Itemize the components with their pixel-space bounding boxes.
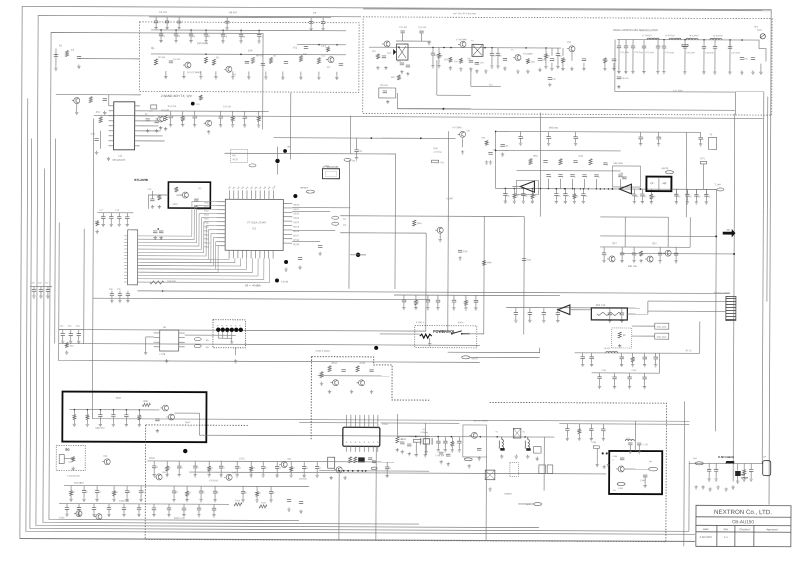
wire [123, 504, 125, 508]
wire U2 pin L3 [216, 209, 225, 211]
wire junction [338, 470, 340, 472]
wire junction [606, 452, 608, 454]
filter F1 inner [325, 171, 336, 176]
ground [77, 340, 80, 344]
ground [172, 498, 175, 502]
wire [226, 17, 228, 21]
ground [633, 200, 636, 204]
wire [650, 189, 652, 194]
wire [444, 443, 446, 448]
capacitor C11 [169, 61, 173, 63]
ground [257, 39, 260, 43]
ground [550, 67, 553, 71]
resistor R48 [86, 415, 89, 420]
ground [302, 474, 305, 478]
ground [269, 498, 272, 502]
transistor Q7 [458, 131, 466, 137]
wire junction [715, 235, 717, 237]
capacitor C96 [573, 137, 577, 139]
wire U2 pin T1 [228, 190, 230, 199]
wire [640, 132, 642, 137]
wire rail y299 [93, 298, 430, 299]
capacitor C61 [154, 121, 158, 123]
resistor R37 [559, 159, 562, 165]
wire junction [398, 47, 400, 49]
ground [590, 437, 593, 441]
svg-text:L2 0.65UH: L2 0.65UH [642, 34, 652, 37]
wire [198, 504, 200, 508]
resistor R23 [437, 53, 440, 58]
wire long rail y345 [59, 344, 480, 346]
capacitor C91 [543, 161, 547, 163]
resistor R4 [299, 56, 302, 62]
transistor Q17 [160, 405, 168, 411]
wire inside bold box [69, 409, 159, 411]
resistor R52 [328, 366, 331, 372]
capacitor C134 [61, 334, 65, 336]
wire [462, 138, 464, 147]
capacitor C45 [642, 46, 646, 48]
ground [414, 306, 417, 310]
ground [110, 299, 113, 303]
ground [384, 66, 387, 70]
svg-text:C47: C47 [527, 259, 532, 262]
ground [490, 64, 493, 68]
IF transformer T1 [396, 44, 408, 60]
capacitor C7 [257, 34, 261, 36]
wire [737, 463, 739, 470]
wire drop x487 [485, 456, 487, 540]
wire junction [222, 29, 224, 31]
ground [716, 485, 719, 489]
wire junction [139, 409, 141, 411]
wire U2 pin L6 [216, 221, 225, 223]
ground [701, 485, 704, 489]
ground [736, 479, 739, 483]
ground [158, 205, 161, 209]
resistor R39 [485, 140, 488, 145]
inductor L4 [710, 38, 722, 40]
wire 22u stub [471, 85, 501, 87]
wire junction [733, 253, 735, 255]
capacitor C159 [172, 491, 176, 493]
wire [475, 302, 477, 306]
capacitor C43 [624, 46, 628, 48]
wire [427, 302, 429, 306]
wire top edge band [363, 9, 771, 11]
wire [458, 443, 460, 448]
svg-text:C121: C121 [239, 457, 245, 460]
wire junction [596, 188, 597, 189]
osc loop [463, 425, 487, 457]
transistor Q4 [72, 98, 80, 104]
wire [504, 188, 506, 193]
wire [655, 359, 657, 363]
transistor Q14 [607, 256, 615, 262]
wire j3 pin dn [345, 446, 347, 451]
ground [249, 473, 252, 477]
wire [427, 295, 429, 300]
ground [159, 39, 162, 43]
ground [695, 200, 698, 204]
wire [604, 63, 606, 67]
wire [545, 48, 547, 54]
wire pll bus [140, 130, 161, 132]
capacitor C142 [369, 370, 373, 372]
capacitor C16 [177, 21, 181, 23]
wire [531, 189, 533, 194]
capacitor C28 [400, 31, 404, 33]
wire [700, 139, 702, 142]
wire [625, 40, 627, 46]
wire rail y462r [689, 462, 763, 464]
transistor Q16 [663, 250, 671, 256]
wire junction [461, 333, 463, 335]
capacitor C13 [304, 47, 308, 49]
ground [102, 223, 105, 227]
wire j3 pin up [368, 415, 370, 427]
wire [750, 472, 752, 478]
wire [591, 359, 593, 363]
wire [638, 445, 640, 450]
svg-text:4.7K/1W: 4.7K/1W [434, 151, 442, 154]
IC U3 audio mute [160, 330, 179, 351]
ground [152, 513, 155, 517]
wire mcu bus lower [138, 258, 264, 279]
svg-text:SW.A: SW.A [458, 321, 464, 324]
wire [113, 496, 115, 498]
svg-text:RX: RX [233, 154, 237, 157]
capacitor C185 [565, 429, 569, 431]
capacitor C110 [436, 300, 440, 302]
wire [695, 189, 697, 195]
wire rail y352r [575, 352, 700, 355]
wire [644, 379, 646, 385]
wire [603, 247, 605, 253]
ground [705, 200, 708, 204]
wire U2 pin L2 [216, 205, 225, 207]
svg-text:2 BAND 3CH TX, 12V: 2 BAND 3CH TX, 12V [161, 94, 193, 98]
ground [320, 382, 323, 386]
ground [230, 340, 233, 344]
capacitor C47 [662, 46, 666, 48]
wire [30, 285, 52, 287]
net tag J8 [371, 467, 377, 470]
capacitor C50 [713, 46, 717, 48]
dashed boundary F [311, 357, 429, 401]
capacitor C162 [241, 491, 245, 493]
ground [153, 236, 156, 240]
capacitor C23 [169, 116, 173, 118]
svg-text:Q22: Q22 [652, 242, 657, 245]
wire [47, 286, 49, 289]
wire junction [443, 47, 445, 49]
wire [447, 295, 449, 331]
wire [111, 296, 113, 299]
wire [578, 434, 580, 437]
wire [529, 315, 531, 319]
wire [262, 461, 264, 466]
svg-text:L4 0.33UH: L4 0.33UH [689, 34, 699, 37]
wire U1 pin right 4 [135, 120, 140, 122]
wire [151, 29, 346, 32]
wire [213, 510, 215, 513]
audio filter bold box [62, 392, 206, 443]
wire inside pa [624, 468, 649, 470]
capacitor C75 [521, 194, 525, 196]
wire [66, 504, 68, 508]
capacitor C118 [620, 313, 624, 315]
resistor R53 [356, 366, 359, 372]
wire [599, 379, 601, 385]
wire [578, 424, 580, 429]
transistor Q10 [513, 55, 521, 61]
svg-text:T.4V33: T.4V33 [281, 280, 289, 283]
ground [317, 76, 320, 80]
wire [214, 486, 216, 491]
wire U2 pin B10 [268, 250, 270, 258]
capacitor C77 [563, 194, 567, 196]
ground [96, 230, 99, 234]
capacitor C178 [407, 444, 411, 446]
wire [110, 213, 112, 217]
ground [474, 306, 477, 310]
transistor Q8 [382, 41, 390, 47]
ground [71, 467, 74, 471]
wire [178, 461, 180, 466]
wire [522, 189, 524, 194]
wire junction [491, 47, 492, 48]
ground [199, 75, 202, 79]
wire right rail x716 [715, 189, 716, 431]
ground [152, 473, 155, 477]
choke L10 bold [726, 462, 733, 464]
capacitor C46 [656, 46, 660, 48]
wire u6 pin [154, 332, 160, 334]
wire [591, 353, 593, 357]
wire [438, 58, 440, 64]
transistor Q13 [435, 227, 443, 233]
wire [659, 247, 661, 253]
svg-text:SEG7: SEG7 [293, 234, 300, 237]
filter box CF2 [513, 428, 521, 438]
ground [77, 513, 80, 517]
capacitor C86 [558, 175, 562, 177]
wire [322, 24, 324, 27]
capacitor C114 [528, 313, 532, 315]
wire [200, 486, 202, 491]
capacitor C4 [204, 34, 208, 36]
wire junction [729, 39, 731, 41]
IC U8 small dip [328, 457, 335, 468]
ground [65, 351, 68, 355]
wire rail y216 right [600, 216, 668, 218]
ground [631, 363, 634, 367]
capacitor C73 [522, 259, 526, 261]
svg-text:471: 471 [293, 47, 298, 50]
ground [657, 142, 660, 146]
capacitor C173 [197, 508, 201, 510]
transistor Q5 [156, 116, 164, 122]
wire [64, 458, 73, 460]
wire [573, 198, 575, 201]
wire U2 pin R8 [283, 233, 292, 235]
svg-text:R46: R46 [487, 261, 492, 264]
ground [431, 64, 434, 68]
wire mcu bus lower [138, 258, 259, 276]
capacitor C146 [177, 466, 181, 468]
capacitor C102 [622, 177, 626, 179]
wire [178, 468, 180, 473]
capacitor C164 [65, 508, 69, 510]
svg-text:R44: R44 [417, 222, 422, 225]
wire [244, 118, 246, 123]
wire junction [443, 108, 445, 110]
transistor Q3 [326, 57, 334, 63]
wire [126, 219, 128, 223]
wire U2 pin L11 [216, 241, 225, 243]
svg-text:C37_GND: C37_GND [731, 51, 740, 54]
wire [714, 40, 716, 46]
ground [213, 498, 216, 502]
resistor R69 [451, 441, 454, 446]
wire [250, 471, 252, 473]
ground [299, 76, 302, 80]
svg-text:R99: R99 [143, 400, 148, 403]
wire [632, 362, 634, 363]
wire u6 pin [154, 346, 160, 348]
wire U1 pin right 6 [135, 130, 140, 132]
capacitor C39 [582, 59, 586, 61]
wire right rail x767 [766, 97, 769, 302]
wire [185, 334, 236, 336]
wire drop x436 [436, 60, 438, 95]
wire [198, 510, 200, 513]
capacitor C35 [475, 62, 479, 64]
svg-text:KTC1815 GR: KTC1815 GR [67, 475, 80, 478]
svg-text:Q1: Q1 [151, 47, 155, 50]
wire [170, 111, 172, 116]
capacitor C168 [122, 508, 126, 510]
wire [99, 410, 101, 415]
wire [178, 23, 180, 26]
svg-text:2SC945: 2SC945 [299, 478, 307, 481]
wire vol in [380, 333, 420, 335]
ground [125, 498, 128, 502]
resistor R16 [376, 54, 379, 59]
wire ra1 pin [124, 258, 127, 260]
svg-text:OSCILLATOR RX MIX DEMODULATOR: OSCILLATOR RX MIX DEMODULATOR [613, 29, 658, 32]
capacitor C182 [439, 452, 443, 454]
cap C150 [617, 482, 625, 485]
wire [277, 146, 279, 159]
resistor R29 [175, 187, 178, 192]
ground [350, 390, 353, 394]
wire mcu bus lower [137, 258, 269, 283]
resistor R56 [354, 457, 357, 463]
svg-text:SG: SG [65, 448, 70, 452]
capacitor C117 [608, 313, 612, 315]
capacitor C14 [154, 21, 158, 23]
wire junction [352, 470, 354, 472]
wire [609, 308, 611, 313]
wire u6 pin [179, 341, 185, 343]
svg-text:C63: C63 [579, 155, 584, 158]
ground [261, 473, 264, 477]
capacitor C121 [619, 357, 623, 359]
wire inner corner [397, 93, 470, 109]
wire [571, 52, 573, 61]
wire [451, 446, 453, 448]
capacitor C100 [488, 152, 492, 154]
svg-text:CB-AU150: CB-AU150 [732, 519, 754, 524]
ground [488, 487, 491, 491]
wire [55, 49, 57, 67]
ground [446, 462, 449, 466]
capacitor C85 [546, 175, 550, 177]
capacitor C64 [117, 217, 121, 219]
wire [119, 296, 121, 299]
ground [241, 498, 244, 502]
wire U2 pin T9 [264, 190, 266, 199]
wire junction [205, 29, 207, 31]
ground [485, 160, 488, 164]
ground [225, 26, 228, 30]
wire j3 pin up [350, 415, 352, 427]
wire junction [523, 188, 525, 190]
wire [475, 295, 477, 300]
ground [95, 498, 98, 502]
wire junction [611, 188, 613, 190]
wire [231, 332, 233, 338]
wire [663, 40, 665, 46]
ground [694, 485, 697, 489]
net tag AMFIL [665, 171, 673, 174]
wire [183, 71, 185, 75]
wire [62, 336, 64, 340]
wire j3 pin up [363, 415, 365, 427]
wire [575, 132, 577, 137]
potentiometer VR1 bold [420, 334, 432, 338]
ground [602, 437, 605, 441]
wire [138, 510, 140, 513]
wire [140, 486, 142, 491]
wire rail y233 [340, 232, 426, 234]
svg-text:SEG9: SEG9 [293, 243, 300, 246]
capacitor C155 [82, 491, 86, 493]
wire [73, 410, 75, 415]
wire [175, 36, 177, 39]
capacitor C88 [582, 175, 586, 177]
ground [107, 157, 110, 161]
ground [643, 385, 646, 389]
wire [643, 40, 645, 46]
ground [606, 463, 609, 467]
wire [70, 486, 72, 491]
wire u6 pin [154, 337, 160, 339]
ground [126, 223, 129, 227]
wire [126, 493, 128, 498]
wire j3 pin up [359, 415, 361, 427]
ground [740, 70, 743, 74]
inductor L3 [686, 38, 698, 40]
ground [548, 83, 551, 87]
wire [33, 286, 35, 289]
svg-text:2SC2668: 2SC2668 [197, 42, 208, 45]
svg-text:LC78: LC78 [160, 353, 166, 356]
ground [235, 473, 238, 477]
svg-text:Q30 KTC3880E: Q30 KTC3880E [473, 419, 488, 422]
